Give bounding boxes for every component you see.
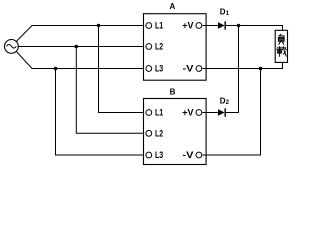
svg-text:+V: +V <box>182 21 193 31</box>
load label glyph fu <box>278 34 284 44</box>
junction phase1 tap <box>97 24 101 28</box>
terminal L2 of B <box>146 128 163 138</box>
diode D2 <box>218 97 230 117</box>
terminal L3 of A <box>146 64 163 74</box>
svg-text:+V: +V <box>182 108 193 118</box>
svg-text:L2: L2 <box>155 128 163 138</box>
svg-text:-V: -V <box>183 150 194 160</box>
module B box <box>144 87 207 164</box>
wire B -V up to bottom rail junction <box>202 69 260 156</box>
load (fuzai) box <box>275 30 287 62</box>
terminal L1 of A <box>146 21 163 31</box>
terminal -V of B <box>183 150 202 160</box>
wire D2 cathode up to top rail junction <box>226 26 239 113</box>
svg-text:L3: L3 <box>155 64 163 74</box>
wire A -V bottom rail to load <box>202 62 282 68</box>
svg-text:-V: -V <box>183 64 194 74</box>
svg-text:L1: L1 <box>155 21 163 31</box>
wire phase3 source to A L3 <box>16 51 146 68</box>
terminal L3 of B <box>146 150 163 160</box>
wire phase3 tap to B L3 <box>56 69 147 156</box>
svg-text:B: B <box>170 87 176 96</box>
AC source <box>4 40 18 54</box>
diode D1 <box>218 8 230 30</box>
junction B -V feed on bottom rail <box>259 67 263 71</box>
junction phase2 tap <box>75 45 79 49</box>
terminal +V of A <box>182 21 202 31</box>
svg-text:A: A <box>170 2 176 11</box>
svg-text:L3: L3 <box>155 150 163 160</box>
wire A +V to D1 anode <box>202 25 218 27</box>
wire D1 cathode to load top rail <box>226 26 283 31</box>
terminal +V of B <box>182 108 202 118</box>
terminal -V of A <box>183 64 202 74</box>
terminal L2 of A <box>146 42 163 52</box>
wire phase2 source to A L2 <box>18 46 146 48</box>
wire B +V to D2 anode <box>202 112 218 114</box>
wire phase1 tap to B L1 <box>99 26 147 113</box>
module A box <box>144 2 207 80</box>
junction D2 feed on top rail <box>237 24 241 28</box>
wire phase1 source to A L1 <box>16 26 146 42</box>
svg-text:L1: L1 <box>155 108 163 118</box>
terminal L1 of B <box>146 108 163 118</box>
wire phase2 tap to B L2 <box>76 47 146 134</box>
junction phase3 tap <box>54 67 58 71</box>
load label glyph zai <box>277 46 287 56</box>
svg-text:L2: L2 <box>155 42 163 52</box>
